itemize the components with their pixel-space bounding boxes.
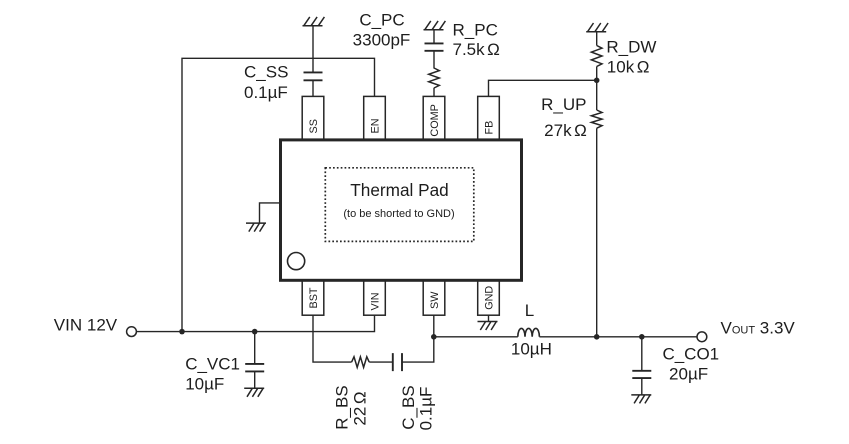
svg-text:10µH: 10µH	[511, 339, 552, 358]
ground above R_DW	[586, 23, 608, 32]
ground above C_SS	[303, 17, 325, 26]
pin SW box	[423, 280, 445, 315]
svg-text:BST: BST	[308, 287, 320, 308]
wire node to R_UP	[596, 80, 598, 110]
svg-text:20µF: 20µF	[669, 365, 708, 384]
ground above C_PC	[424, 21, 446, 30]
capacitor C_BS	[393, 353, 402, 371]
wire C_BS to SW	[402, 315, 434, 362]
node VIN-CVC1 junction	[252, 329, 258, 335]
pin BST box	[302, 280, 324, 315]
wire rail to C_CO1	[641, 337, 643, 371]
svg-text:27kΩ: 27kΩ	[544, 121, 587, 140]
svg-text:C_VC1: C_VC1	[185, 354, 240, 373]
wire VIN rail	[136, 315, 374, 331]
svg-text:10µF: 10µF	[185, 375, 224, 394]
wire R_UP to VOUT rail	[596, 128, 598, 337]
svg-text:EN: EN	[370, 119, 382, 134]
inductor L	[518, 328, 540, 336]
svg-text:COMP: COMP	[429, 104, 441, 136]
svg-text:3300pF: 3300pF	[353, 30, 411, 49]
resistor R_UP	[591, 110, 602, 128]
svg-text:(to be shorted to GND): (to be shorted to GND)	[343, 208, 454, 220]
wire BST down	[313, 315, 352, 362]
svg-text:GND: GND	[484, 286, 496, 310]
pin EN box	[364, 96, 386, 139]
svg-text:SW: SW	[429, 291, 441, 309]
svg-text:VOUT 3.3V: VOUT 3.3V	[721, 318, 796, 337]
wire FB pin to node	[489, 80, 597, 96]
pin FB box	[478, 96, 500, 139]
ground at IC left	[260, 203, 281, 223]
ground below GND pin	[478, 322, 498, 331]
node VOUT-CCO1 junction	[639, 334, 645, 340]
node VIN-EN junction	[179, 329, 185, 335]
thermal pad outline	[325, 168, 474, 242]
svg-text:Thermal Pad: Thermal Pad	[350, 180, 448, 200]
svg-text:VIN 12V: VIN 12V	[54, 316, 118, 335]
wire rail to C_VC1	[254, 332, 256, 364]
svg-text:0.1µF: 0.1µF	[417, 387, 436, 431]
wire C_PC to R_PC	[433, 51, 435, 69]
pin VIN box	[364, 280, 386, 315]
svg-text:L: L	[525, 301, 534, 320]
capacitor C_CO1	[632, 371, 651, 378]
capacitor C_PC	[425, 43, 444, 50]
svg-text:R_PC: R_PC	[453, 20, 498, 39]
svg-text:SS: SS	[308, 119, 320, 133]
pin SS box	[302, 96, 324, 139]
IC U1 body	[281, 140, 522, 280]
capacitor C_VC1	[245, 364, 264, 372]
svg-text:VIN: VIN	[370, 293, 382, 311]
wire inductor to VOUT terminal	[539, 336, 697, 338]
resistor R_BS	[352, 357, 370, 368]
svg-text:R_DW: R_DW	[606, 37, 656, 56]
svg-text:0.1µF: 0.1µF	[244, 83, 288, 102]
svg-text:FB: FB	[484, 121, 496, 135]
svg-text:10kΩ: 10kΩ	[607, 57, 650, 76]
capacitor C_SS	[304, 72, 323, 80]
svg-text:R_BS: R_BS	[333, 385, 352, 429]
resistor R_DW	[591, 46, 602, 67]
svg-text:C_SS: C_SS	[244, 63, 288, 82]
node FB junction	[594, 78, 600, 84]
svg-text:22Ω: 22Ω	[351, 391, 370, 425]
ground below C_CO1	[631, 395, 651, 404]
svg-text:7.5kΩ: 7.5kΩ	[453, 40, 500, 59]
wire C_VC1 to ground	[254, 371, 256, 388]
wire SW rail to inductor	[434, 336, 518, 338]
pin GND box	[478, 280, 500, 315]
terminal VIN	[127, 327, 137, 337]
wire C_SS to SS pin	[312, 80, 314, 96]
wire R_BS to C_BS	[369, 361, 393, 363]
wire GND pin to ground	[488, 315, 490, 321]
pin COMP box	[423, 96, 445, 139]
wire ground to R_DW	[596, 32, 598, 46]
wire ground to C_SS	[312, 26, 314, 73]
svg-text:R_UP: R_UP	[541, 95, 586, 114]
wire R_PC to COMP pin	[433, 88, 435, 97]
node VOUT-RUP junction	[594, 334, 600, 340]
wire R_DW to FB node	[596, 67, 598, 81]
svg-text:C_BS: C_BS	[399, 385, 418, 429]
wire EN pullup to VIN	[182, 58, 375, 331]
svg-text:C_PC: C_PC	[359, 11, 404, 30]
terminal VOUT	[697, 332, 707, 342]
pin 1 marker	[288, 253, 305, 270]
node SW junction	[431, 334, 437, 340]
ground below C_VC1	[244, 388, 264, 397]
wire ground to C_PC	[433, 30, 435, 44]
svg-text:C_CO1: C_CO1	[662, 344, 719, 363]
wire C_CO1 to ground	[641, 378, 643, 395]
resistor R_PC	[429, 68, 440, 88]
